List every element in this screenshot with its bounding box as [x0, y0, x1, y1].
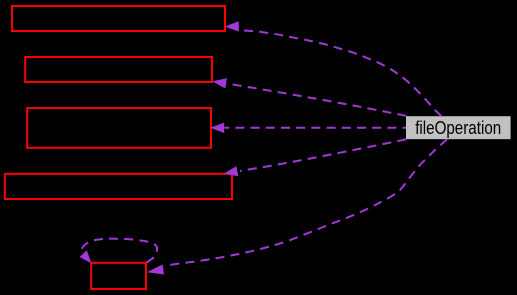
edge fileOperation to box5 (long wire around bottom) [147, 139, 447, 274]
edge fileOperation to box1 (wire) [225, 21, 441, 116]
node fileOperation [406, 116, 511, 139]
edge fileOperation to box3 (wire) [210, 123, 406, 133]
svg-text:fileOperation: fileOperation [415, 118, 501, 138]
node box1 (truncated, top) [12, 6, 225, 31]
edge fileOperation to box4 (wire) [224, 139, 406, 176]
edge fileOperation to box2 (wire) [212, 78, 406, 116]
node box3 (two-line) [27, 108, 211, 148]
node box2 [25, 57, 212, 82]
edge box5 self loop (wire) [80, 239, 157, 264]
node box4 (bottom wide) [5, 174, 232, 199]
node box5 (small, bottom with self loop) [91, 263, 146, 289]
